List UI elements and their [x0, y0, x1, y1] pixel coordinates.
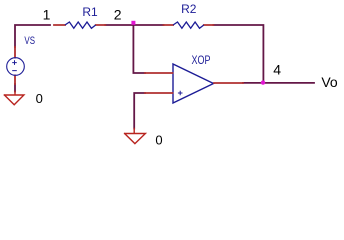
svg-text:0: 0: [36, 91, 43, 106]
svg-text:1: 1: [43, 6, 51, 22]
svg-text:R1: R1: [82, 5, 98, 19]
svg-text:VS: VS: [24, 35, 35, 47]
svg-text:R2: R2: [181, 2, 197, 16]
resistor R1 pins: [54, 24, 105, 26]
svg-text:0: 0: [155, 133, 162, 148]
voltage source VS: [7, 58, 25, 76]
op-amp output pin: [214, 82, 243, 84]
junction node 2: [131, 21, 135, 25]
wire op-amp output to Vo: [243, 82, 314, 84]
svg-text:2: 2: [114, 7, 122, 23]
wire R1 right pin to node 2 to R2 left pin: [105, 24, 163, 26]
op-amp input pins: [145, 73, 173, 93]
svg-text:XOP: XOP: [192, 55, 211, 67]
resistor R2: [173, 22, 204, 28]
junction node 4: [261, 80, 265, 84]
op-amp plus marking: [178, 91, 183, 96]
ground 0 (under VS): [4, 92, 24, 105]
wire node 2 down to op-amp inverting input: [133, 25, 145, 73]
ground 0 (under op-amp + input): [125, 129, 146, 144]
wire VS bottom to ground 1: [14, 84, 16, 92]
wire from VS top to node 1 (left corner): [15, 25, 50, 47]
svg-text:4: 4: [273, 61, 281, 77]
wire op-amp noninverting input to ground 2: [134, 93, 145, 129]
resistor R1: [65, 22, 96, 28]
resistor R2 pins: [164, 24, 214, 26]
svg-text:Vo: Vo: [321, 74, 338, 90]
op-amp U1 XOP: [173, 64, 214, 103]
voltage source VS pins: [14, 47, 16, 84]
wire R2 right pin to feedback corner down to output node 4: [213, 25, 263, 82]
